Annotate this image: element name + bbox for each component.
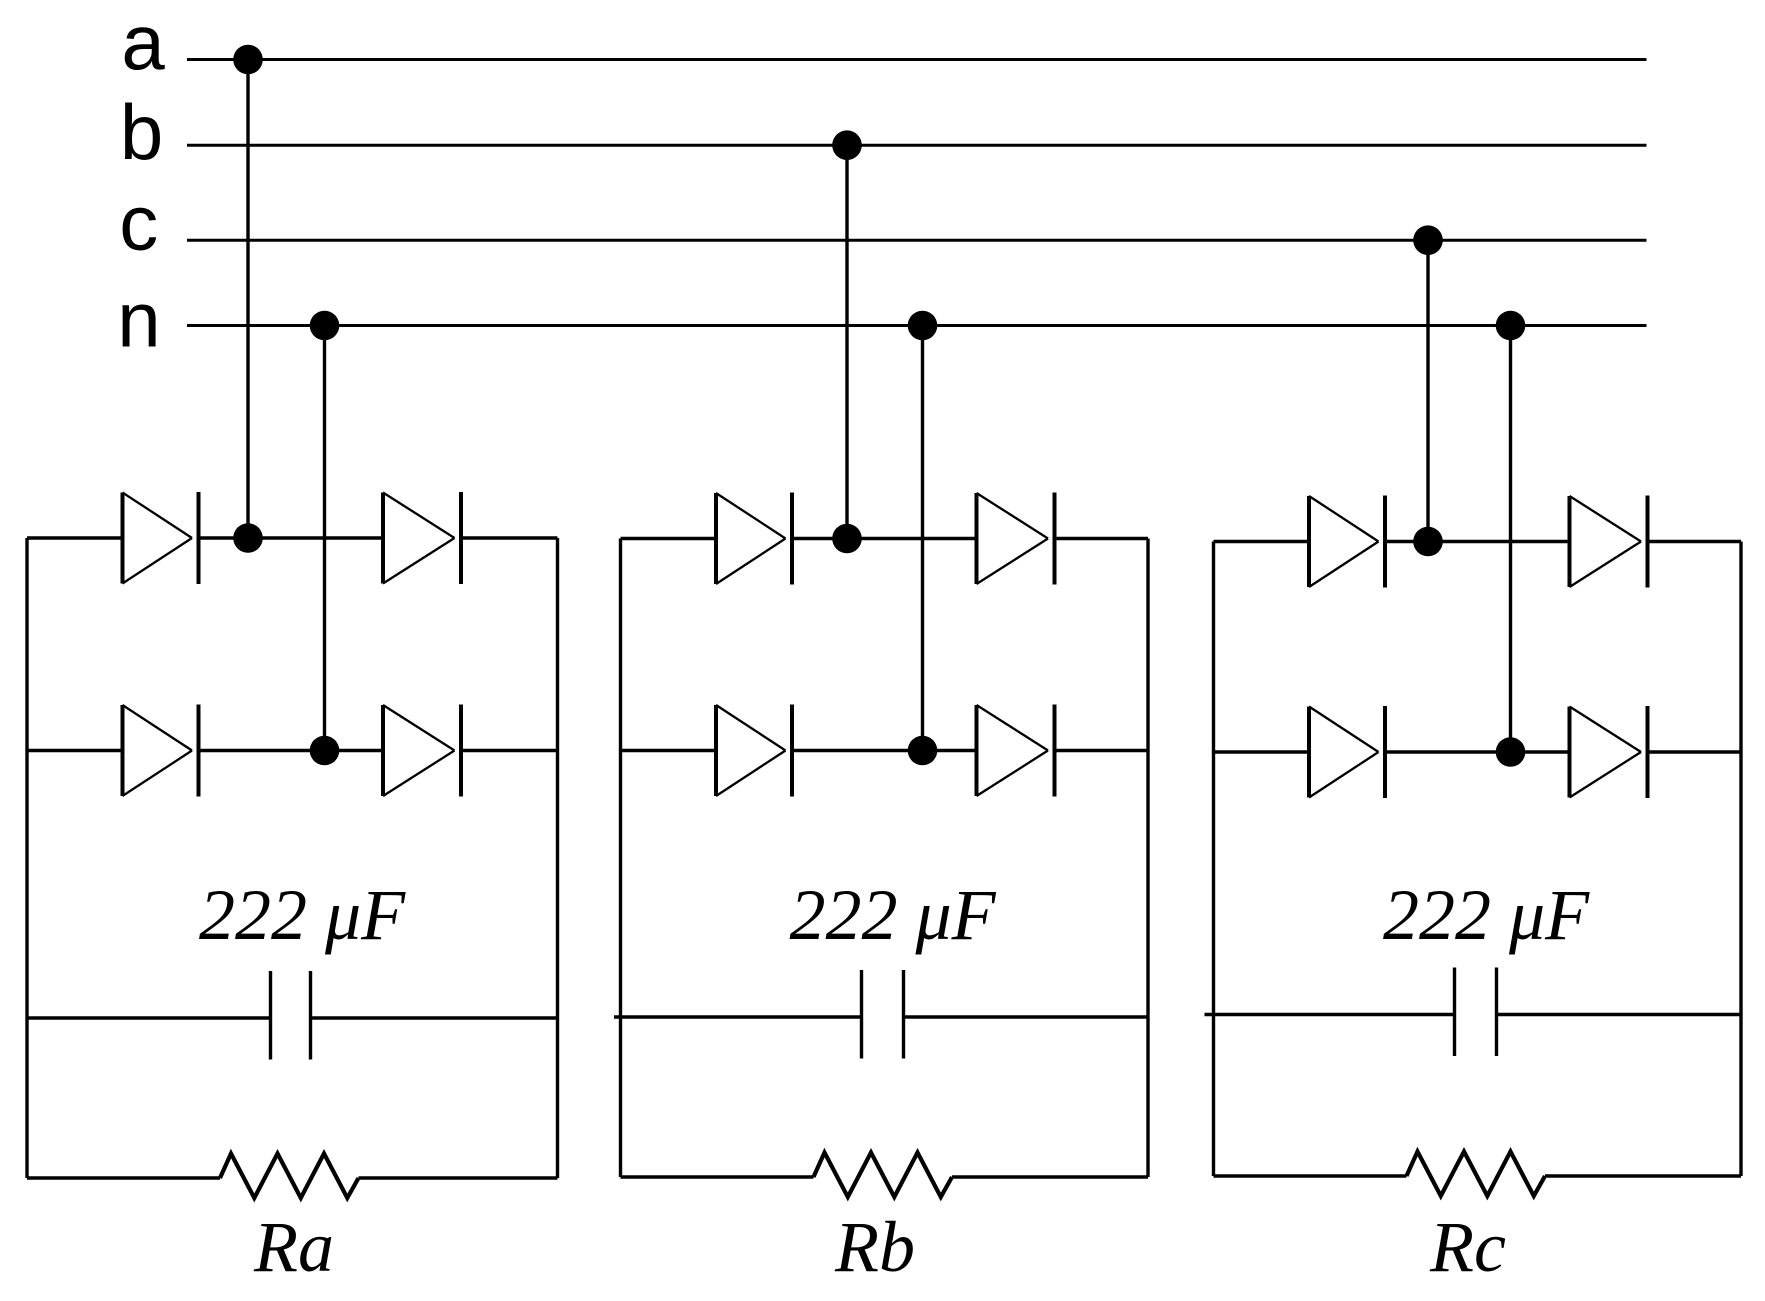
wire: bridge 3 bottom row segment (D33 to D34) <box>1385 750 1570 753</box>
junction: phase a tap on bus (bridge 1) <box>233 45 263 75</box>
svg-text:c: c <box>119 179 158 267</box>
diode D22 (bridge 2 top-right) <box>977 493 1055 585</box>
wire: bridge 3 bottom row segment (D34 to right rail) <box>1648 750 1742 753</box>
wire: bridge 3 right rail <box>1739 542 1742 1177</box>
wire: bridge 3 left rail <box>1212 542 1215 1177</box>
svg-text:Rb: Rb <box>834 1207 915 1287</box>
svg-text:b: b <box>120 88 163 176</box>
junction: phase c tap on bus (bridge 3) <box>1413 225 1443 255</box>
wire: bridge 1 bottom row segment (left rail to D13) <box>27 749 123 752</box>
capacitor C1 222uF <box>27 971 558 1060</box>
diode D11 (bridge 1 top-left) <box>123 492 199 584</box>
junction: neutral n tap on bus (bridge 3) <box>1496 311 1526 341</box>
wire: phase b drop to bridge 2 top node <box>845 145 848 538</box>
wire: bridge 1 left rail <box>25 538 28 1178</box>
junction: bridge 1 top node (phase a) <box>233 523 263 553</box>
wire: bridge 1 right rail <box>556 538 559 1178</box>
capacitor C3 222uF <box>1205 968 1742 1057</box>
junction: neutral n tap on bus (bridge 1) <box>310 311 340 341</box>
capacitor C2 222uF <box>614 970 1148 1059</box>
svg-text:Ra: Ra <box>253 1207 334 1287</box>
wire: bridge 2 top row segment (D21 to D22) <box>792 537 977 540</box>
svg-text:222 μF: 222 μF <box>789 875 996 955</box>
junction: bridge 1 bottom node (neutral) <box>310 736 340 766</box>
resistor Rb <box>621 1153 1149 1198</box>
diode D21 (bridge 2 top-left) <box>716 493 792 585</box>
resistor Ra <box>27 1154 558 1199</box>
wire: a bus line <box>187 58 1647 61</box>
diode D23 (bridge 2 bottom-left) <box>716 705 792 797</box>
diode D14 (bridge 1 bottom-right) <box>383 705 461 797</box>
wire: bridge 1 top row segment (D11 to D12) <box>199 536 384 539</box>
svg-text:n: n <box>117 276 160 364</box>
wire: bridge 1 bottom row segment (D13 to D14) <box>199 749 384 752</box>
svg-text:a: a <box>121 0 165 86</box>
wire: bridge 2 top row segment (left rail to D21) <box>621 537 717 540</box>
wire: bridge 3 bottom row segment (left rail to D33) <box>1214 750 1310 753</box>
junction: bridge 2 top node (phase b) <box>832 524 862 554</box>
svg-text:222 μF: 222 μF <box>1383 875 1590 955</box>
junction: bridge 3 bottom node (neutral) <box>1496 737 1526 767</box>
wire: b bus line <box>187 144 1647 147</box>
diode D12 (bridge 1 top-right) <box>383 492 461 584</box>
wire: bridge 1 top row segment (D12 to right rail) <box>461 536 558 539</box>
wire: phase c drop to bridge 3 top node <box>1426 240 1429 541</box>
wire: phase a drop to bridge 1 top node <box>246 60 249 539</box>
diode D33 (bridge 3 bottom-left) <box>1309 706 1385 798</box>
diode D13 (bridge 1 bottom-left) <box>123 705 199 797</box>
junction: bridge 3 top node (phase c) <box>1413 527 1443 557</box>
diode D24 (bridge 2 bottom-right) <box>977 705 1055 797</box>
diode D31 (bridge 3 top-left) <box>1309 496 1385 588</box>
wire: bridge 2 bottom row segment (D24 to right rail) <box>1055 749 1149 752</box>
wire: bridge 3 top row segment (D32 to right rail) <box>1648 540 1742 543</box>
wire: bridge 2 bottom row segment (left rail to D23) <box>621 749 717 752</box>
wire: bridge 2 bottom row segment (D23 to D24) <box>792 749 977 752</box>
wire: c bus line <box>187 239 1647 242</box>
wire: neutral drop to bridge 1 bottom node <box>323 326 326 751</box>
junction: bridge 2 bottom node (neutral) <box>908 736 938 766</box>
wire: bridge 1 top row segment (left rail to D11) <box>27 536 123 539</box>
wire: bridge 2 left rail <box>619 539 622 1178</box>
junction: phase b tap on bus (bridge 2) <box>832 130 862 160</box>
diode D32 (bridge 3 top-right) <box>1570 496 1648 588</box>
wire: bridge 1 bottom row segment (D14 to right rail) <box>461 749 558 752</box>
wire: bridge 2 right rail <box>1146 539 1149 1178</box>
wire: bridge 3 top row segment (left rail to D31) <box>1214 540 1310 543</box>
diode D34 (bridge 3 bottom-right) <box>1570 706 1648 798</box>
svg-text:Rc: Rc <box>1429 1207 1506 1287</box>
junction: neutral n tap on bus (bridge 2) <box>908 311 938 341</box>
wire: bridge 3 top row segment (D31 to D32) <box>1385 540 1570 543</box>
resistor Rc <box>1214 1152 1742 1197</box>
wire: bridge 2 top row segment (D22 to right rail) <box>1055 537 1149 540</box>
wire: neutral drop to bridge 3 bottom node <box>1509 326 1512 753</box>
svg-text:222 μF: 222 μF <box>199 875 406 955</box>
wire: n bus line <box>187 324 1647 327</box>
wire: neutral drop to bridge 2 bottom node <box>921 326 924 751</box>
